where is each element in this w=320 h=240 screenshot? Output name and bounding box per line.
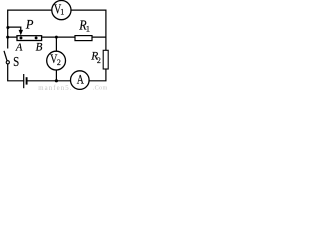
svg-text:manfen5.: manfen5. <box>38 85 72 91</box>
svg-text:A: A <box>15 42 23 53</box>
svg-text:1: 1 <box>60 8 64 17</box>
svg-text:2: 2 <box>97 56 101 65</box>
svg-text:A: A <box>77 73 84 87</box>
svg-text:2: 2 <box>57 58 61 67</box>
svg-text:1: 1 <box>86 23 90 33</box>
svg-text:.Com: .Com <box>93 85 108 91</box>
svg-text:P: P <box>25 18 34 32</box>
svg-text:B: B <box>36 42 43 54</box>
svg-text:S: S <box>13 54 19 69</box>
